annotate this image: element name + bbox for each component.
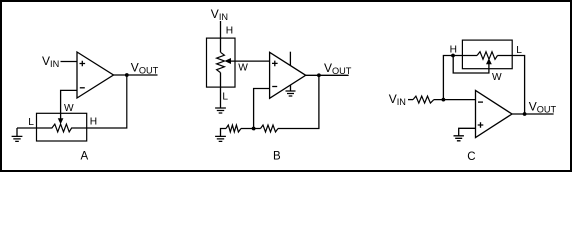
op-amp C minus sign [478,101,483,103]
wire op-amp A output to VOUT [114,74,158,76]
resistor element of pot B (vertical) [217,52,225,72]
resistor R-in (C) [413,96,434,103]
wire pot C L terminal to output [498,56,525,115]
op-amp A plus sign [80,61,86,67]
wiper arrow W (pot C) [486,58,492,64]
wire op-amp A inverting input to wiper [61,90,77,119]
svg-text:L: L [516,45,522,56]
border frame [1,1,571,171]
potentiometer R-C box [462,40,512,69]
op-amp B plus sign [272,61,278,67]
ground (circuit A) [12,128,23,141]
node VIN (C) label [389,92,406,107]
op-amp B minus sign [272,86,277,88]
junction dot H node C [451,54,455,58]
junction dot input C [442,98,446,102]
wire input junction up to pot H terminal [443,56,477,100]
label H (pot B) [226,26,233,37]
junction dot output B [317,73,321,77]
node VOUT (B) label [324,61,352,76]
label L (pot A) [28,117,34,128]
svg-text:L: L [222,92,228,103]
op-amp U-A [77,52,114,98]
label H (pot A) [90,117,97,128]
wire op-amp C output to VOUT [512,113,554,115]
wiper arrow W (pot A) [58,118,64,124]
wire VIN down through pot B to ground [220,21,222,108]
resistor R2 (B right) [261,125,279,132]
wire VIN to op-amp A + input [61,61,78,63]
label W (pot B) [238,62,248,73]
wire R1 to ground (B) [221,129,227,137]
node VOUT (A) label [131,61,159,76]
ground (below pot B) [215,108,226,113]
junction dot output C [523,112,527,116]
svg-text:H: H [226,26,233,37]
potentiometer R-A box [37,113,87,141]
node VOUT (C) label [529,100,557,115]
wire to op-amp C inverting input [434,99,476,101]
power stub op-amp B [289,52,291,66]
op-amp A minus sign [80,87,85,89]
junction dot output A [125,73,129,77]
resistor element of pot C [477,52,498,60]
label L (pot C) [516,45,522,56]
svg-text:H: H [450,45,457,56]
ground stub op-amp B [286,85,296,96]
svg-text:L: L [28,117,34,128]
svg-text:B: B [273,151,281,163]
svg-text:W: W [492,72,502,83]
svg-text:H: H [90,117,97,128]
wire ground to op-amp C + input [459,128,476,135]
potentiometer R-B box [207,38,236,87]
label B [273,151,281,163]
label A [81,151,89,163]
svg-text:C: C [467,151,475,163]
svg-text:W: W [238,62,248,73]
svg-text:A: A [81,151,89,163]
node VIN (B) label [211,7,228,22]
label L (pot B) [222,92,228,103]
op-amp U-C [476,91,513,138]
op-amp C plus sign [478,122,484,128]
svg-text:W: W [64,103,74,114]
ground (divider B) [215,136,226,141]
wire divider junction B [241,128,261,130]
junction dot divider B [252,127,256,131]
feedback wire output B down to resistor divider [278,75,319,128]
node VIN (A) label [42,54,59,69]
wire VIN to resistor (C) [408,99,413,101]
label W (pot C) [492,72,502,83]
wiper arrow W (pot B) [224,58,231,64]
ground (C) [454,136,464,141]
op-amp U-B [270,52,306,98]
label H (pot C) [450,45,457,56]
wire op-amp B inverting input to feedback junction [254,89,270,129]
wire wiper B to op-amp + input [231,60,270,62]
label W (pot A) [64,103,74,114]
resistor element of pot A with wires to ground and feedback [17,75,127,132]
resistor R1 (B left) [226,125,241,132]
label C [467,151,475,163]
wire op-amp B output to VOUT [306,74,349,76]
wire H junction down to wiper return (C) [453,56,489,74]
